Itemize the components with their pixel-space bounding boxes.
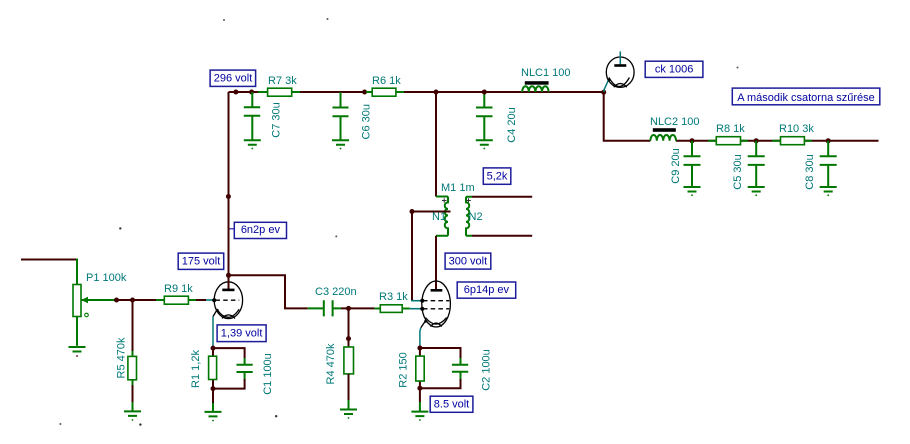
- wire R9 to grid: [196, 299, 206, 301]
- resistor R9: [156, 296, 197, 304]
- svg-text:NLC1 100: NLC1 100: [521, 67, 571, 79]
- node dot cathode2 bottom: [417, 386, 422, 391]
- svg-text:R3 1k: R3 1k: [379, 291, 408, 303]
- wire N2 output top: [472, 196, 532, 198]
- svg-text:C8 30u: C8 30u: [804, 154, 816, 189]
- node dot transformer branch: [434, 90, 439, 95]
- label plus N1: [442, 198, 447, 203]
- svg-text:6p14p ev: 6p14p ev: [464, 284, 510, 296]
- svg-text:R7 3k: R7 3k: [268, 75, 297, 87]
- svg-text:NLC2 100: NLC2 100: [650, 116, 700, 128]
- wire input line top-left: [21, 259, 77, 285]
- svg-text:R6 1k: R6 1k: [372, 75, 401, 87]
- node dot riser mid: [226, 194, 231, 199]
- wire R4 branch: [348, 308, 350, 347]
- svg-text:M1 1m: M1 1m: [441, 182, 475, 194]
- ground below R1: [205, 389, 222, 422]
- svg-text:N2: N2: [469, 211, 483, 223]
- wire B+ to transformer: [435, 92, 437, 197]
- capacitor C2: [420, 348, 468, 388]
- svg-text:ck 1006: ck 1006: [655, 64, 694, 76]
- node dot C5: [754, 138, 759, 143]
- capacitor C5: [748, 141, 765, 187]
- capacitor C8: [820, 141, 837, 187]
- node dot C8: [826, 138, 831, 143]
- svg-text:C4 20u: C4 20u: [506, 107, 518, 142]
- node dot grid g1: [420, 307, 424, 311]
- resistor R10: [772, 137, 812, 145]
- node dot R4 top: [346, 336, 351, 341]
- wire tap to screen grid: [412, 212, 451, 301]
- wire N2 output bottom: [472, 235, 532, 237]
- svg-text:5,2k: 5,2k: [487, 170, 508, 182]
- wire top rail: [229, 91, 604, 93]
- node dot R6 left: [362, 90, 367, 95]
- node dot rail a: [233, 90, 238, 95]
- svg-text:R10 3k: R10 3k: [779, 123, 814, 135]
- resistor R5: [128, 351, 137, 385]
- potentiometer P1: [73, 285, 117, 346]
- resistor R7: [258, 88, 300, 96]
- transformer M1 primary N1: [436, 197, 448, 236]
- svg-text:R4 470k: R4 470k: [325, 343, 337, 384]
- wire second rail: [676, 140, 879, 142]
- label box 300 volt: [445, 253, 491, 269]
- svg-text:C3 220n: C3 220n: [315, 286, 357, 298]
- wire R3 to grid2: [410, 308, 423, 310]
- wire wiper to R9: [117, 299, 158, 301]
- resistor R3: [374, 305, 409, 313]
- svg-text:R8 1k: R8 1k: [716, 123, 745, 135]
- ground below P1: [69, 347, 86, 357]
- label box 5,2k: [483, 168, 511, 184]
- wire ck down to second rail: [604, 92, 651, 141]
- node dot cathode2 top: [417, 346, 422, 351]
- label box A masodik csatorna szurese: [732, 88, 880, 105]
- tube U2 ck1006 rectifier: [604, 51, 634, 92]
- capacitor C4: [476, 92, 493, 140]
- resistor R2: [416, 348, 424, 388]
- ground below C5: [748, 187, 765, 196]
- capacitor C9: [684, 141, 701, 187]
- svg-text:P1 100k: P1 100k: [86, 272, 127, 284]
- svg-text:R5 470k: R5 470k: [116, 337, 128, 378]
- svg-text:1,39 volt: 1,39 volt: [221, 328, 263, 340]
- node dot C3R3R4: [346, 306, 351, 311]
- svg-text:296 volt: 296 volt: [214, 73, 253, 85]
- wire C3 branch from anode1: [229, 275, 308, 308]
- wire R5 branch: [132, 300, 134, 402]
- ground below R4: [340, 400, 357, 419]
- label box 296 volt: [210, 70, 256, 86]
- node dot wiper: [114, 298, 119, 303]
- ground below C6: [332, 140, 349, 149]
- svg-text:R9 1k: R9 1k: [164, 283, 193, 295]
- transformer M1 secondary N2: [466, 197, 472, 236]
- label box 6p14p ev: [457, 282, 516, 298]
- node dot tap: [410, 209, 415, 214]
- svg-text:C5 30u: C5 30u: [732, 154, 744, 189]
- node dot ck junction: [601, 90, 606, 95]
- node dot cathode1 bottom: [211, 386, 216, 391]
- node dot C4: [482, 90, 487, 95]
- label box 1,39 volt: [217, 325, 266, 342]
- wire anode1 riser: [228, 92, 230, 275]
- label box ck 1006: [645, 61, 703, 77]
- svg-text:6n2p ev: 6n2p ev: [241, 224, 281, 236]
- svg-text:300 volt: 300 volt: [449, 255, 488, 267]
- svg-text:8.5 volt: 8.5 volt: [434, 398, 469, 410]
- svg-text:C1 100u: C1 100u: [262, 353, 274, 395]
- tube V2 6p14p pentode: [420, 281, 451, 349]
- node dot grid g2: [420, 299, 424, 303]
- svg-text:C7 30u: C7 30u: [270, 102, 282, 137]
- label plus N2: [466, 198, 471, 203]
- ground below C7: [244, 140, 261, 149]
- capacitor C6: [333, 92, 349, 140]
- stray grid dot: [327, 18, 329, 20]
- label box 8.5 volt: [430, 396, 473, 412]
- ground below R2: [411, 388, 428, 421]
- ground below C9: [684, 187, 701, 196]
- label box 175 volt: [178, 253, 224, 269]
- svg-text:C2 100u: C2 100u: [481, 349, 493, 391]
- ground below R5: [124, 402, 141, 421]
- wire N1 to anode2: [435, 236, 437, 290]
- label box 6n2p ev: [229, 222, 287, 238]
- inductor NLC2: [650, 128, 676, 141]
- inductor NLC1: [522, 81, 548, 92]
- ground below C8: [820, 187, 837, 196]
- wire C3 to node: [341, 307, 374, 309]
- resistor R1: [209, 348, 217, 389]
- resistor R8: [708, 137, 748, 145]
- svg-text:N1: N1: [432, 211, 446, 223]
- ground below C4: [476, 140, 493, 149]
- node grid1: [212, 298, 216, 302]
- resistor R6: [366, 88, 404, 96]
- tube V1 6n2p triode: [213, 275, 243, 349]
- svg-text:175 volt: 175 volt: [182, 256, 221, 268]
- resistor R4: [344, 347, 354, 400]
- capacitor C3: [308, 300, 341, 316]
- node dot C9: [690, 138, 695, 143]
- node dot cathode1 top: [211, 346, 216, 351]
- svg-text:R2 150: R2 150: [398, 352, 410, 387]
- svg-text:C6 30u: C6 30u: [360, 104, 372, 139]
- capacitor C1: [213, 348, 253, 389]
- capacitor C7: [244, 92, 260, 140]
- svg-text:R1 1,2k: R1 1,2k: [190, 350, 202, 388]
- svg-text:A második csatorna szűrése: A második csatorna szűrése: [737, 92, 875, 104]
- node dot anode1: [226, 273, 231, 278]
- node dot R5 junction: [130, 298, 135, 303]
- node dot rail C7: [249, 90, 254, 95]
- svg-text:C9 20u: C9 20u: [670, 148, 682, 183]
